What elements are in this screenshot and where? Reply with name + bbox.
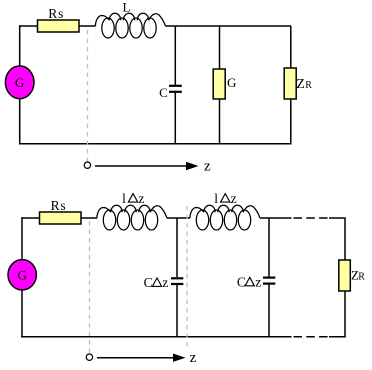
svg-text:G: G [15,75,24,90]
load ZR lower wire [290,99,292,145]
dashed reference line bottom left [89,221,91,354]
capacitor CΔz first plates [171,277,183,279]
wire second inductor to cap junction [260,217,292,219]
load ZR box [284,68,296,99]
svg-text:C: C [144,275,153,290]
conductance G lower wire [219,99,221,144]
capacitor CΔz second plates [263,277,275,279]
dashed reference line top [87,30,89,162]
svg-text:Rs: Rs [51,198,67,213]
svg-text:z: z [138,191,144,206]
bottom rail dashed [294,336,330,338]
wire resistor to first inductor [81,217,97,219]
svg-text:R: R [358,271,365,282]
svg-text:z: z [162,275,168,290]
source G circle bottom [8,260,36,290]
svg-text:Rs: Rs [48,6,64,21]
svg-text:R: R [305,80,312,91]
wire inductor to right corner [166,25,292,27]
wire top-left horizontal [19,25,37,27]
z axis arrowhead top [186,162,199,170]
svg-text:z: z [231,191,237,206]
capacitor CΔz first upper wire [176,218,178,277]
capacitor CΔz second lower wire [268,285,270,337]
z axis arrowhead bottom [173,354,186,362]
capacitor C upper wire [174,26,176,85]
node marker top [84,162,90,168]
svg-text:G: G [18,268,27,283]
conductance G box [213,69,225,99]
svg-text:l: l [122,191,126,206]
wire left vertical lower bottom circuit [21,290,23,338]
wire between inductors [167,217,190,219]
dashed reference line bottom middle [186,206,188,347]
resistor Rs [38,20,80,32]
wire left vertical upper bottom circuit [21,217,23,260]
wire left vertical upper [19,25,21,66]
wire top-right corner [329,218,345,260]
resistor Rs bottom [40,212,82,224]
dashed continuation top rail [294,217,330,219]
svg-text:Z: Z [296,77,305,92]
wire ZR to bottom rail [344,291,346,338]
svg-text:L: L [123,0,131,14]
conductance G upper wire [219,26,221,69]
node marker bottom [86,354,92,360]
capacitor CΔz first lower wire [176,285,178,337]
bottom rail solid [21,336,292,338]
z axis line top [95,165,187,167]
inductor L [96,13,166,38]
svg-text:G: G [227,75,236,90]
wire left vertical lower [19,99,21,145]
inductor lΔz first [97,205,167,230]
wire top-left horizontal bottom circuit [21,217,39,219]
svg-text:z: z [190,350,197,366]
inductor lΔz second [190,205,260,230]
capacitor C lower wire [174,93,176,144]
svg-text:l: l [214,191,218,206]
bottom rail [19,143,291,145]
load ZR upper wire [290,26,292,68]
wire resistor to inductor [79,25,96,27]
load ZR box bottom [339,260,351,291]
svg-text:z: z [204,158,211,174]
svg-text:C: C [237,274,246,289]
capacitor C plates [169,85,182,87]
svg-text:C: C [159,85,168,100]
z axis line bottom [97,357,174,359]
bottom rail right solid [329,336,346,338]
capacitor CΔz second upper wire [268,218,270,277]
source G circle [5,66,34,99]
svg-text:z: z [255,274,261,289]
